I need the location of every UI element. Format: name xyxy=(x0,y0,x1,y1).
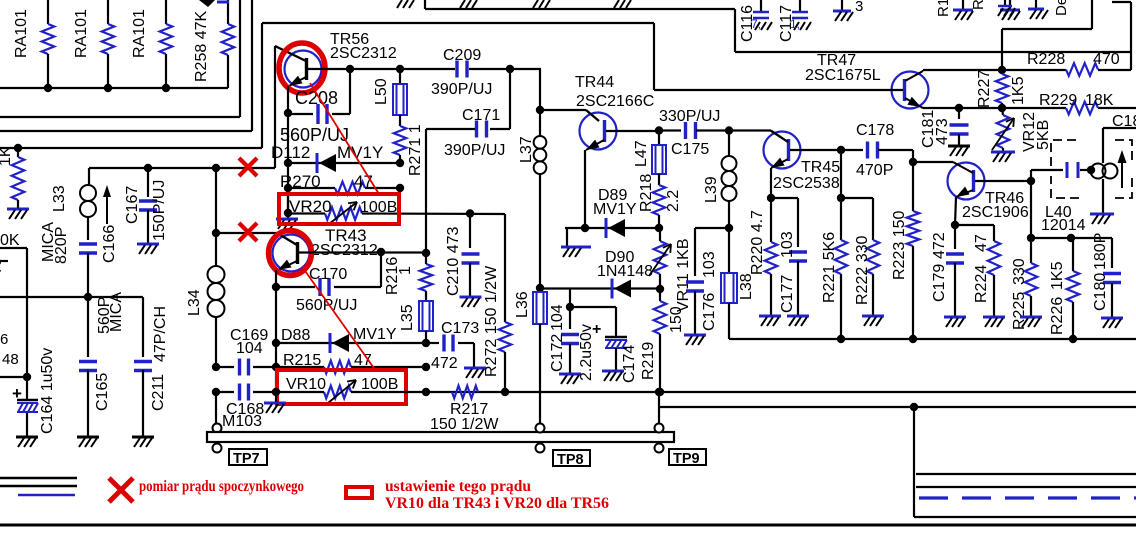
node (tank coil) xyxy=(1087,166,1095,174)
svg-text:MICA: MICA xyxy=(108,292,125,332)
label De (cut) xyxy=(1053,0,1070,16)
svg-text:473: 473 xyxy=(934,118,951,145)
svg-text:100B: 100B xyxy=(361,376,398,393)
svg-text:De: De xyxy=(1053,0,1070,16)
svg-text:MV1Y: MV1Y xyxy=(337,143,383,162)
wire TR56 base row xyxy=(308,68,541,70)
capacitor C116 xyxy=(739,0,772,42)
ground (C165) xyxy=(77,437,99,447)
wire TR56 emitter xyxy=(287,86,289,113)
svg-text:TP8: TP8 xyxy=(557,452,584,468)
ground (C167) xyxy=(137,244,159,254)
wire tank bottom row xyxy=(1031,181,1112,268)
ground (1K) xyxy=(7,209,29,219)
red circle highlight TR43 xyxy=(269,231,312,276)
svg-text:R215: R215 xyxy=(283,352,321,369)
svg-text:1,: 1, xyxy=(790,17,800,31)
inductor L50 xyxy=(373,69,407,115)
svg-text:2SC1675L: 2SC1675L xyxy=(805,67,881,84)
inductor L38 xyxy=(721,228,755,303)
wire X2 row xyxy=(216,168,277,233)
node (D90 left) xyxy=(536,284,544,292)
node (R218 bottom) xyxy=(655,224,663,232)
ground (C176) xyxy=(684,335,706,345)
wire TR47 collector row xyxy=(923,70,1002,71)
capacitor C171 390P/UJ xyxy=(426,107,505,159)
svg-text:C178: C178 xyxy=(856,122,894,139)
node (R215 left) xyxy=(272,363,280,371)
svg-text:R219: R219 xyxy=(640,342,657,380)
capacitor C208 560P/UJ xyxy=(280,69,350,145)
ground (C177) xyxy=(787,316,809,326)
svg-text:C18: C18 xyxy=(1112,113,1136,130)
diode D112 MV1Y xyxy=(271,143,400,173)
svg-text:R272 150 1/2W: R272 150 1/2W xyxy=(483,265,500,377)
svg-text:1K5: 1K5 xyxy=(1010,76,1027,105)
red circle highlight TR56 xyxy=(279,43,325,93)
shielded cable box xyxy=(914,407,1136,517)
ground (L40) xyxy=(1090,214,1114,224)
svg-text:C211: C211 xyxy=(150,374,167,411)
connector bar (test points) xyxy=(207,432,674,442)
node (TR44 collector tap) xyxy=(536,106,544,114)
ground marks on top bus xyxy=(397,0,631,8)
svg-text:2.2u50v: 2.2u50v xyxy=(578,324,595,381)
tuning arrow (L40) xyxy=(1118,150,1127,188)
svg-text:100B: 100B xyxy=(360,199,397,216)
node 1K tap xyxy=(14,144,22,152)
resistor R226 1K5 xyxy=(1049,238,1079,339)
svg-text:47P/CH: 47P/CH xyxy=(152,306,169,362)
svg-text:3: 3 xyxy=(855,0,863,15)
svg-text:RA101: RA101 xyxy=(131,9,148,58)
wire net1 xyxy=(0,0,240,117)
transistor TR44 xyxy=(575,74,654,150)
node (L34 tap) xyxy=(212,164,220,172)
svg-text:R218: R218 xyxy=(638,174,655,212)
potentiometer VR12 5KB xyxy=(992,108,1052,152)
svg-text:C165: C165 xyxy=(94,373,111,411)
label R1 (cut) xyxy=(935,0,952,17)
inductor L33 xyxy=(51,185,96,217)
tuning arrow C166 xyxy=(101,185,118,263)
svg-text:D88: D88 xyxy=(281,327,310,344)
diode D90 1N4148 xyxy=(540,249,660,299)
ground (C172) xyxy=(559,374,581,384)
wire TR43 emitter xyxy=(275,270,277,287)
test point TP7 xyxy=(213,424,268,468)
ground (C164) xyxy=(16,437,38,447)
node (R215 right) xyxy=(422,363,430,371)
resistor R223 150 xyxy=(891,162,919,339)
inductor L36 xyxy=(514,288,547,423)
svg-text:C208: C208 xyxy=(295,88,338,108)
svg-text:L36: L36 xyxy=(514,291,531,318)
node (R217 right / R272 bottom) xyxy=(501,388,509,396)
wire TR44 emitter xyxy=(584,150,586,228)
svg-text:2.2: 2.2 xyxy=(665,190,682,212)
node (C175 left) xyxy=(655,126,663,134)
node (C208 riser) xyxy=(346,65,354,73)
label 76 (cut) xyxy=(0,258,8,274)
resistor R227 1K5 xyxy=(976,70,1027,108)
ground (VR12) xyxy=(991,152,1015,162)
transistor TR47 xyxy=(805,52,929,109)
svg-text:C180: C180 xyxy=(1092,273,1109,311)
svg-text:C176: C176 xyxy=(701,293,718,331)
svg-text:R229: R229 xyxy=(1039,92,1077,109)
ground (C179) xyxy=(944,317,966,327)
svg-text:TP9: TP9 xyxy=(673,451,700,467)
red pointer line TR56-VR20 xyxy=(310,83,379,194)
wire emitter column TR43 xyxy=(275,287,277,392)
svg-text:103: 103 xyxy=(779,231,796,258)
svg-text:1K5: 1K5 xyxy=(1049,261,1066,290)
wire C209-C171 riser xyxy=(490,69,510,129)
resistor RA101 #3 xyxy=(131,0,172,88)
node (D112 right / R271) xyxy=(396,159,404,167)
wire 30K node xyxy=(0,248,27,375)
wire R270-VR20 link xyxy=(287,188,289,213)
svg-text:R225: R225 xyxy=(1011,292,1028,330)
svg-text:R226: R226 xyxy=(1049,297,1066,335)
svg-text:L47: L47 xyxy=(633,140,650,167)
node (TR46 emitter) xyxy=(951,221,959,229)
node (R221/R222 split) xyxy=(837,194,845,202)
wire C178 to TR46 xyxy=(913,150,953,162)
svg-text:C171: C171 xyxy=(462,107,500,124)
svg-text:2SC2166C: 2SC2166C xyxy=(576,93,654,110)
svg-text:R271 1: R271 1 xyxy=(407,124,424,176)
wire TP9 riser xyxy=(659,392,1136,423)
wire TR47 base xyxy=(654,23,903,90)
wire TR44 collector row xyxy=(540,110,599,121)
svg-text:2SC1906: 2SC1906 xyxy=(962,204,1029,221)
svg-text:390P/UJ: 390P/UJ xyxy=(444,142,505,159)
ground (top, x=1010) xyxy=(1000,0,1020,20)
legend wire marks xyxy=(0,478,77,495)
node (TP9 riser) xyxy=(655,388,663,396)
node (C181 top) xyxy=(955,104,963,112)
resistor R221 5K6 xyxy=(821,198,847,339)
svg-text:104: 104 xyxy=(549,304,566,331)
test point TP9 xyxy=(655,424,707,468)
node (C209/C171) xyxy=(506,65,514,73)
ground (C210) xyxy=(460,297,482,307)
svg-text:6: 6 xyxy=(0,331,8,348)
ground (top, x=842) xyxy=(833,0,853,21)
svg-text:L35: L35 xyxy=(399,304,416,331)
svg-text:R223 150: R223 150 xyxy=(891,211,908,280)
node (TR46 base) xyxy=(1027,177,1035,185)
ground (R225) xyxy=(1020,317,1042,327)
svg-text:47: 47 xyxy=(354,172,373,191)
capacitor C180 180P xyxy=(1092,233,1121,317)
resistor R224 47 xyxy=(955,225,1000,316)
label R (cut) xyxy=(970,0,987,10)
wire TR44 base row xyxy=(606,130,659,132)
svg-text:150P/UJ: 150P/UJ xyxy=(151,180,168,241)
resistor R215 47 xyxy=(276,352,426,373)
inductor L37 xyxy=(518,69,546,288)
node (L39 bottom) xyxy=(725,224,733,232)
svg-text:2SC2312: 2SC2312 xyxy=(330,45,397,62)
capacitor C181 473 xyxy=(920,108,969,148)
red pointer line TR43-VR10 xyxy=(303,268,376,371)
resistor R271 1 xyxy=(394,115,424,176)
svg-text:R: R xyxy=(970,0,987,10)
svg-text:L50: L50 xyxy=(373,78,390,105)
bus to RA101 bank xyxy=(0,87,228,89)
svg-text:L33: L33 xyxy=(51,185,68,212)
svg-text:C173: C173 xyxy=(441,320,479,337)
svg-text:470: 470 xyxy=(1093,51,1120,68)
capacitor C174 2.2u50v xyxy=(570,307,638,383)
capacitor C211 47P/CH xyxy=(134,297,169,436)
wire net2 xyxy=(0,0,252,131)
svg-text:TR44: TR44 xyxy=(575,74,614,91)
resistor RA101 #2 xyxy=(73,0,114,88)
legend red X xyxy=(109,478,133,502)
inductor L39 xyxy=(703,131,737,229)
ground (R222) xyxy=(862,316,884,326)
red box highlight VR10 xyxy=(277,370,406,404)
node on bus (RA101 #2) xyxy=(104,84,112,92)
coax dashes (blue) xyxy=(919,496,1136,499)
node (VR10 right) xyxy=(422,388,430,396)
resistor RA101 #1 xyxy=(13,0,54,88)
svg-text:12014: 12014 xyxy=(1041,217,1086,234)
svg-text:C174: C174 xyxy=(621,345,638,383)
svg-text:47: 47 xyxy=(973,234,990,252)
svg-text:R221 5K6: R221 5K6 xyxy=(821,232,838,303)
svg-text:104: 104 xyxy=(236,340,263,357)
node (TR45 emitter) xyxy=(767,194,775,202)
legend red box xyxy=(346,487,372,498)
capacitor C117 xyxy=(778,0,811,42)
inductor L34 xyxy=(186,233,225,366)
node (shielded cable stub) xyxy=(910,403,918,411)
node (C168 left) xyxy=(212,388,220,396)
svg-text:C164 1u50v: C164 1u50v xyxy=(39,348,56,434)
resistor R217 150 1/2W xyxy=(430,386,499,433)
resistor R272 150 1/2W xyxy=(483,214,511,392)
node (C210 top) xyxy=(466,209,474,217)
red X current-measure mark 1 xyxy=(239,158,257,176)
partial diode mark top edge xyxy=(199,0,229,7)
node (D88 left) xyxy=(272,339,280,347)
capacitor C176 103 xyxy=(686,228,729,334)
potentiometer VR11 1KB xyxy=(649,228,692,312)
test point TP8 xyxy=(536,424,591,469)
svg-text:472: 472 xyxy=(431,355,458,372)
svg-text:R220 4.7: R220 4.7 xyxy=(749,210,766,275)
node (R270 left) xyxy=(284,184,292,192)
ground (emitter column) xyxy=(264,392,286,413)
wire TR46 emitter xyxy=(955,197,956,225)
node (R227 top) xyxy=(998,66,1006,74)
capacitor in tank L40 xyxy=(1067,162,1091,178)
labels 6 48 (cut) xyxy=(0,331,19,368)
svg-text:M103: M103 xyxy=(222,413,262,430)
wire emitter column TR56 xyxy=(287,113,289,213)
wire TR43 collector xyxy=(277,233,297,245)
resistor R218 2.2 xyxy=(638,174,682,228)
svg-text:1: 1 xyxy=(397,266,414,275)
svg-text:1K: 1K xyxy=(0,146,14,166)
wire D90 branch xyxy=(569,289,571,308)
inductor L47 xyxy=(633,131,666,175)
capacitor C164 1u50v (electrolytic) xyxy=(12,348,56,436)
wire TR45 base xyxy=(790,149,841,151)
svg-text:R224: R224 xyxy=(973,265,990,303)
node on bus (RA101 #3) xyxy=(162,84,170,92)
svg-text:L38: L38 xyxy=(738,273,755,300)
capacitor (cut, x=1005) xyxy=(998,0,1015,16)
svg-text:330: 330 xyxy=(1011,258,1028,285)
svg-text:VR10: VR10 xyxy=(286,376,326,393)
svg-text:TR45: TR45 xyxy=(801,159,840,176)
node (D90 right) xyxy=(656,285,664,293)
svg-text:VR10 dla TR43 i VR20 dla TR56: VR10 dla TR43 i VR20 dla TR56 xyxy=(385,495,609,512)
svg-text:150: 150 xyxy=(668,306,685,333)
potentiometer VR10 100B xyxy=(286,376,398,403)
node (C166/C165) xyxy=(84,293,92,301)
potentiometer VR20 100B xyxy=(288,197,505,224)
svg-text:VR20: VR20 xyxy=(289,197,332,216)
svg-text:D112: D112 xyxy=(271,143,310,162)
red X current-measure mark 2 xyxy=(239,223,257,241)
node (C208 left) xyxy=(284,109,292,117)
capacitor C168 M103 xyxy=(216,384,276,431)
ground (R220) xyxy=(759,316,781,326)
capacitor C210 473 xyxy=(445,214,480,297)
svg-text:5KB: 5KB xyxy=(1035,120,1052,150)
capacitor C165 560P MICA xyxy=(79,292,125,436)
svg-text:R258 47K: R258 47K xyxy=(193,11,210,82)
wire TR56 collector riser xyxy=(275,46,306,168)
wire TR46 base xyxy=(975,180,1031,182)
node (D88 right) xyxy=(422,339,430,347)
bottom border line xyxy=(0,524,1136,527)
svg-text:560P/UJ: 560P/UJ xyxy=(296,297,357,314)
node (C172/C174 split) xyxy=(566,303,574,311)
svg-text:18K: 18K xyxy=(1085,92,1114,109)
svg-text:C172: C172 xyxy=(549,334,566,372)
legend text ustawienie xyxy=(385,478,531,495)
node (R223 bottom) xyxy=(909,335,917,343)
svg-text:pomiar prądu spoczynkowego: pomiar prądu spoczynkowego xyxy=(139,478,304,495)
node (C170 left) xyxy=(272,283,280,291)
svg-text:390P/UJ: 390P/UJ xyxy=(431,81,492,98)
capacitor C172 104 xyxy=(549,304,579,373)
svg-text:C170: C170 xyxy=(309,266,347,283)
wire R221 riser xyxy=(840,150,842,198)
ground (C180) xyxy=(1101,318,1123,328)
svg-text:L39: L39 xyxy=(703,176,720,203)
transistor TR46 xyxy=(948,162,1029,221)
capacitor C177 103 xyxy=(771,198,807,315)
wire net3 to top bus xyxy=(0,23,654,148)
svg-text:820P: 820P xyxy=(53,227,70,264)
wire L34 to TP7 xyxy=(215,392,217,423)
red box highlight VR20 xyxy=(279,194,399,224)
node (TR45 base / C178) xyxy=(837,146,845,154)
svg-text:C179: C179 xyxy=(931,264,948,302)
wire to C164 xyxy=(0,376,27,378)
resistor R229 18K xyxy=(1039,92,1114,114)
svg-text:C210 473: C210 473 xyxy=(445,227,462,296)
svg-text:48: 48 xyxy=(2,351,19,368)
inductor L40 12014 xyxy=(1041,128,1118,234)
node (C175 right / L39) xyxy=(725,126,733,134)
capacitor C167 150P/UJ xyxy=(124,168,168,243)
node (C164) xyxy=(23,373,31,381)
node (C170 right riser) xyxy=(377,248,385,256)
node on bus (RA101 #1) xyxy=(44,84,52,92)
svg-text:C177: C177 xyxy=(779,275,796,313)
svg-text:103: 103 xyxy=(701,251,718,278)
svg-text:472: 472 xyxy=(931,232,948,259)
wire TR43 base row xyxy=(299,251,426,253)
label C18 (cut) xyxy=(1112,113,1136,130)
svg-text:R228: R228 xyxy=(1027,51,1065,68)
ground (C174) xyxy=(602,371,624,381)
svg-text:C209: C209 xyxy=(443,47,481,64)
node (R225 top) xyxy=(1027,234,1035,242)
ground (C173) xyxy=(464,368,486,378)
node (R226 top) xyxy=(1067,234,1075,242)
bus (VR10 row) xyxy=(276,391,1136,393)
capacitor C209 390P/UJ xyxy=(431,47,492,98)
svg-text:R227: R227 xyxy=(976,70,993,108)
diode D88 MV1Y xyxy=(276,326,426,353)
node (D112 left) xyxy=(284,159,292,167)
svg-text:RA101: RA101 xyxy=(73,9,90,58)
diode D89 MV1Y xyxy=(565,187,659,238)
node (R221 bottom) xyxy=(837,335,845,343)
svg-text:TP7: TP7 xyxy=(233,451,260,467)
svg-text:VR11 1KB: VR11 1KB xyxy=(675,238,692,312)
svg-text:7,: 7, xyxy=(751,17,761,31)
svg-text:R222 330: R222 330 xyxy=(854,236,871,305)
svg-text:C167: C167 xyxy=(124,186,141,224)
node (R226 bottom) xyxy=(1069,335,1077,343)
capacitor C166 820P MICA xyxy=(40,217,97,294)
svg-text:330P/UJ: 330P/UJ xyxy=(659,108,720,125)
transistor TR43 xyxy=(273,226,378,272)
label 3 (cut) xyxy=(855,0,863,15)
ground (D89 anode) xyxy=(561,228,591,257)
resistor R219 150 xyxy=(640,289,685,392)
capacitor C178 470P xyxy=(841,122,913,179)
capacitor C175 330P/UJ xyxy=(659,108,729,158)
node (TR44 emitter) xyxy=(581,224,589,232)
resistor R258 47K xyxy=(193,0,234,88)
resistor R216 1 xyxy=(384,253,432,301)
svg-text:L34: L34 xyxy=(186,289,203,316)
ground (C211) xyxy=(132,437,154,447)
label 0K (cut) xyxy=(0,232,20,249)
wire TR47 emitter row xyxy=(921,107,1136,108)
svg-text:180P: 180P xyxy=(1092,233,1109,270)
wire TR45 emitter xyxy=(770,168,772,198)
wire right edge riser xyxy=(1112,2,1131,70)
ground (top, x=963) xyxy=(953,0,973,20)
bus (emitter row y=339) xyxy=(729,303,1136,339)
svg-text:150 1/2W: 150 1/2W xyxy=(430,416,499,433)
node (R270 right) xyxy=(396,184,404,192)
